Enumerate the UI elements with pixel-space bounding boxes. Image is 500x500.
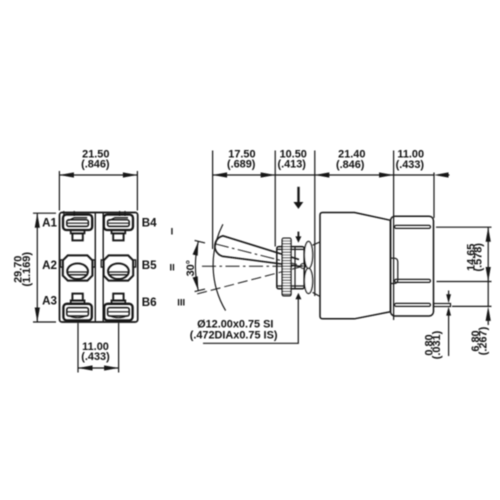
dimension 14.65 line with arrows [487, 227, 489, 281]
terminal B6 [104, 294, 132, 321]
svg-text:(.413): (.413) [277, 158, 306, 170]
lever (position I, solid) [215, 236, 301, 267]
svg-text:II: II [170, 262, 175, 273]
svg-text:III: III [177, 297, 185, 308]
extension line blade bottom [452, 305, 492, 307]
terminal A3 [63, 294, 91, 321]
svg-text:A3: A3 [42, 295, 57, 308]
dimension 11.00 bottom extension lines [77, 323, 79, 373]
svg-text:30°: 30° [185, 260, 197, 276]
dimension 29.70 line with arrows [36, 213, 38, 322]
protruding blade terminal [434, 304, 451, 307]
terminal slot bottom [395, 303, 431, 306]
terminal A1 [63, 215, 92, 241]
switch body trapezoid [320, 213, 391, 319]
thread label leader [203, 299, 298, 344]
dimension 6.80 line with outside arrow [487, 282, 489, 307]
switch body outline [60, 213, 138, 323]
position III dashed line [197, 267, 301, 294]
seal ring lower ellipse [304, 268, 312, 293]
svg-text:I: I [171, 227, 174, 238]
svg-text:(.846): (.846) [81, 158, 110, 170]
svg-text:(.846): (.846) [336, 159, 365, 171]
thread diameter small arrow top [295, 232, 301, 243]
knurled nut [282, 238, 291, 296]
extension line 14.65 bottom [437, 281, 492, 283]
locator tab [391, 258, 398, 283]
boss chamfer top [313, 242, 320, 245]
svg-text:B5: B5 [142, 259, 157, 272]
30 degree arc [195, 241, 198, 290]
terminal A2 [60, 255, 94, 280]
terminal B5 [101, 255, 135, 280]
extension line at body rear step [393, 151, 395, 321]
svg-text:(.267): (.267) [477, 326, 489, 355]
big actuation arrow [294, 187, 304, 209]
svg-text:(.689): (.689) [227, 158, 256, 170]
terminal tip ticks B4 [119, 211, 121, 216]
pivot circle [301, 264, 306, 269]
dimension 21.50 line with arrows [59, 174, 137, 176]
lever sweep arc [213, 224, 225, 310]
dimension 11.00 bottom line with arrows [78, 367, 119, 369]
rear block [391, 216, 434, 316]
svg-text:(1.169): (1.169) [21, 252, 33, 287]
dimension 0.80 arrows and leader [448, 291, 450, 300]
arc arrow top [193, 242, 199, 256]
svg-text:(.433): (.433) [81, 351, 110, 363]
svg-text:Ø12.00x0.75 SI: Ø12.00x0.75 SI [197, 318, 273, 330]
position II centerline dash-dot [202, 265, 301, 267]
svg-text:(.472DIAx0.75 IS): (.472DIAx0.75 IS) [190, 330, 278, 342]
terminal slot middle [395, 279, 431, 282]
position I tick [195, 240, 205, 243]
arc arrow bottom [193, 276, 199, 290]
position III tick [195, 289, 205, 292]
dimension 29.70 extension lines [33, 212, 56, 214]
extension line 14.65 top [436, 226, 492, 228]
svg-text:(.578): (.578) [473, 243, 485, 272]
svg-text:A1: A1 [42, 216, 57, 229]
terminal tip ticks A1 [63, 211, 65, 216]
svg-text:B4: B4 [142, 216, 157, 229]
terminal B4 [104, 215, 133, 241]
extension line at body front [314, 151, 316, 297]
boss chamfer bottom [313, 292, 320, 296]
knurl ribs [282, 241, 290, 294]
svg-text:(.433): (.433) [396, 159, 425, 171]
extension line at bushing face [274, 151, 276, 247]
seal ring upper ellipse [304, 241, 312, 268]
center channel wire right [102, 213, 104, 322]
thread diameter small arrow bottom [295, 293, 301, 299]
center channel wire left [94, 213, 96, 322]
extension line at lever sweep front [212, 151, 214, 250]
bushing barrel [277, 247, 304, 289]
lever centerline dash-dot [215, 244, 302, 266]
svg-text:A2: A2 [42, 259, 57, 272]
extension line at terminal tip [433, 173, 435, 219]
svg-text:(.031): (.031) [431, 330, 443, 359]
terminal slot top [395, 225, 431, 228]
svg-text:B6: B6 [142, 296, 157, 309]
chained dimension line top [213, 174, 434, 176]
dimension 21.50 extension lines [58, 171, 60, 211]
